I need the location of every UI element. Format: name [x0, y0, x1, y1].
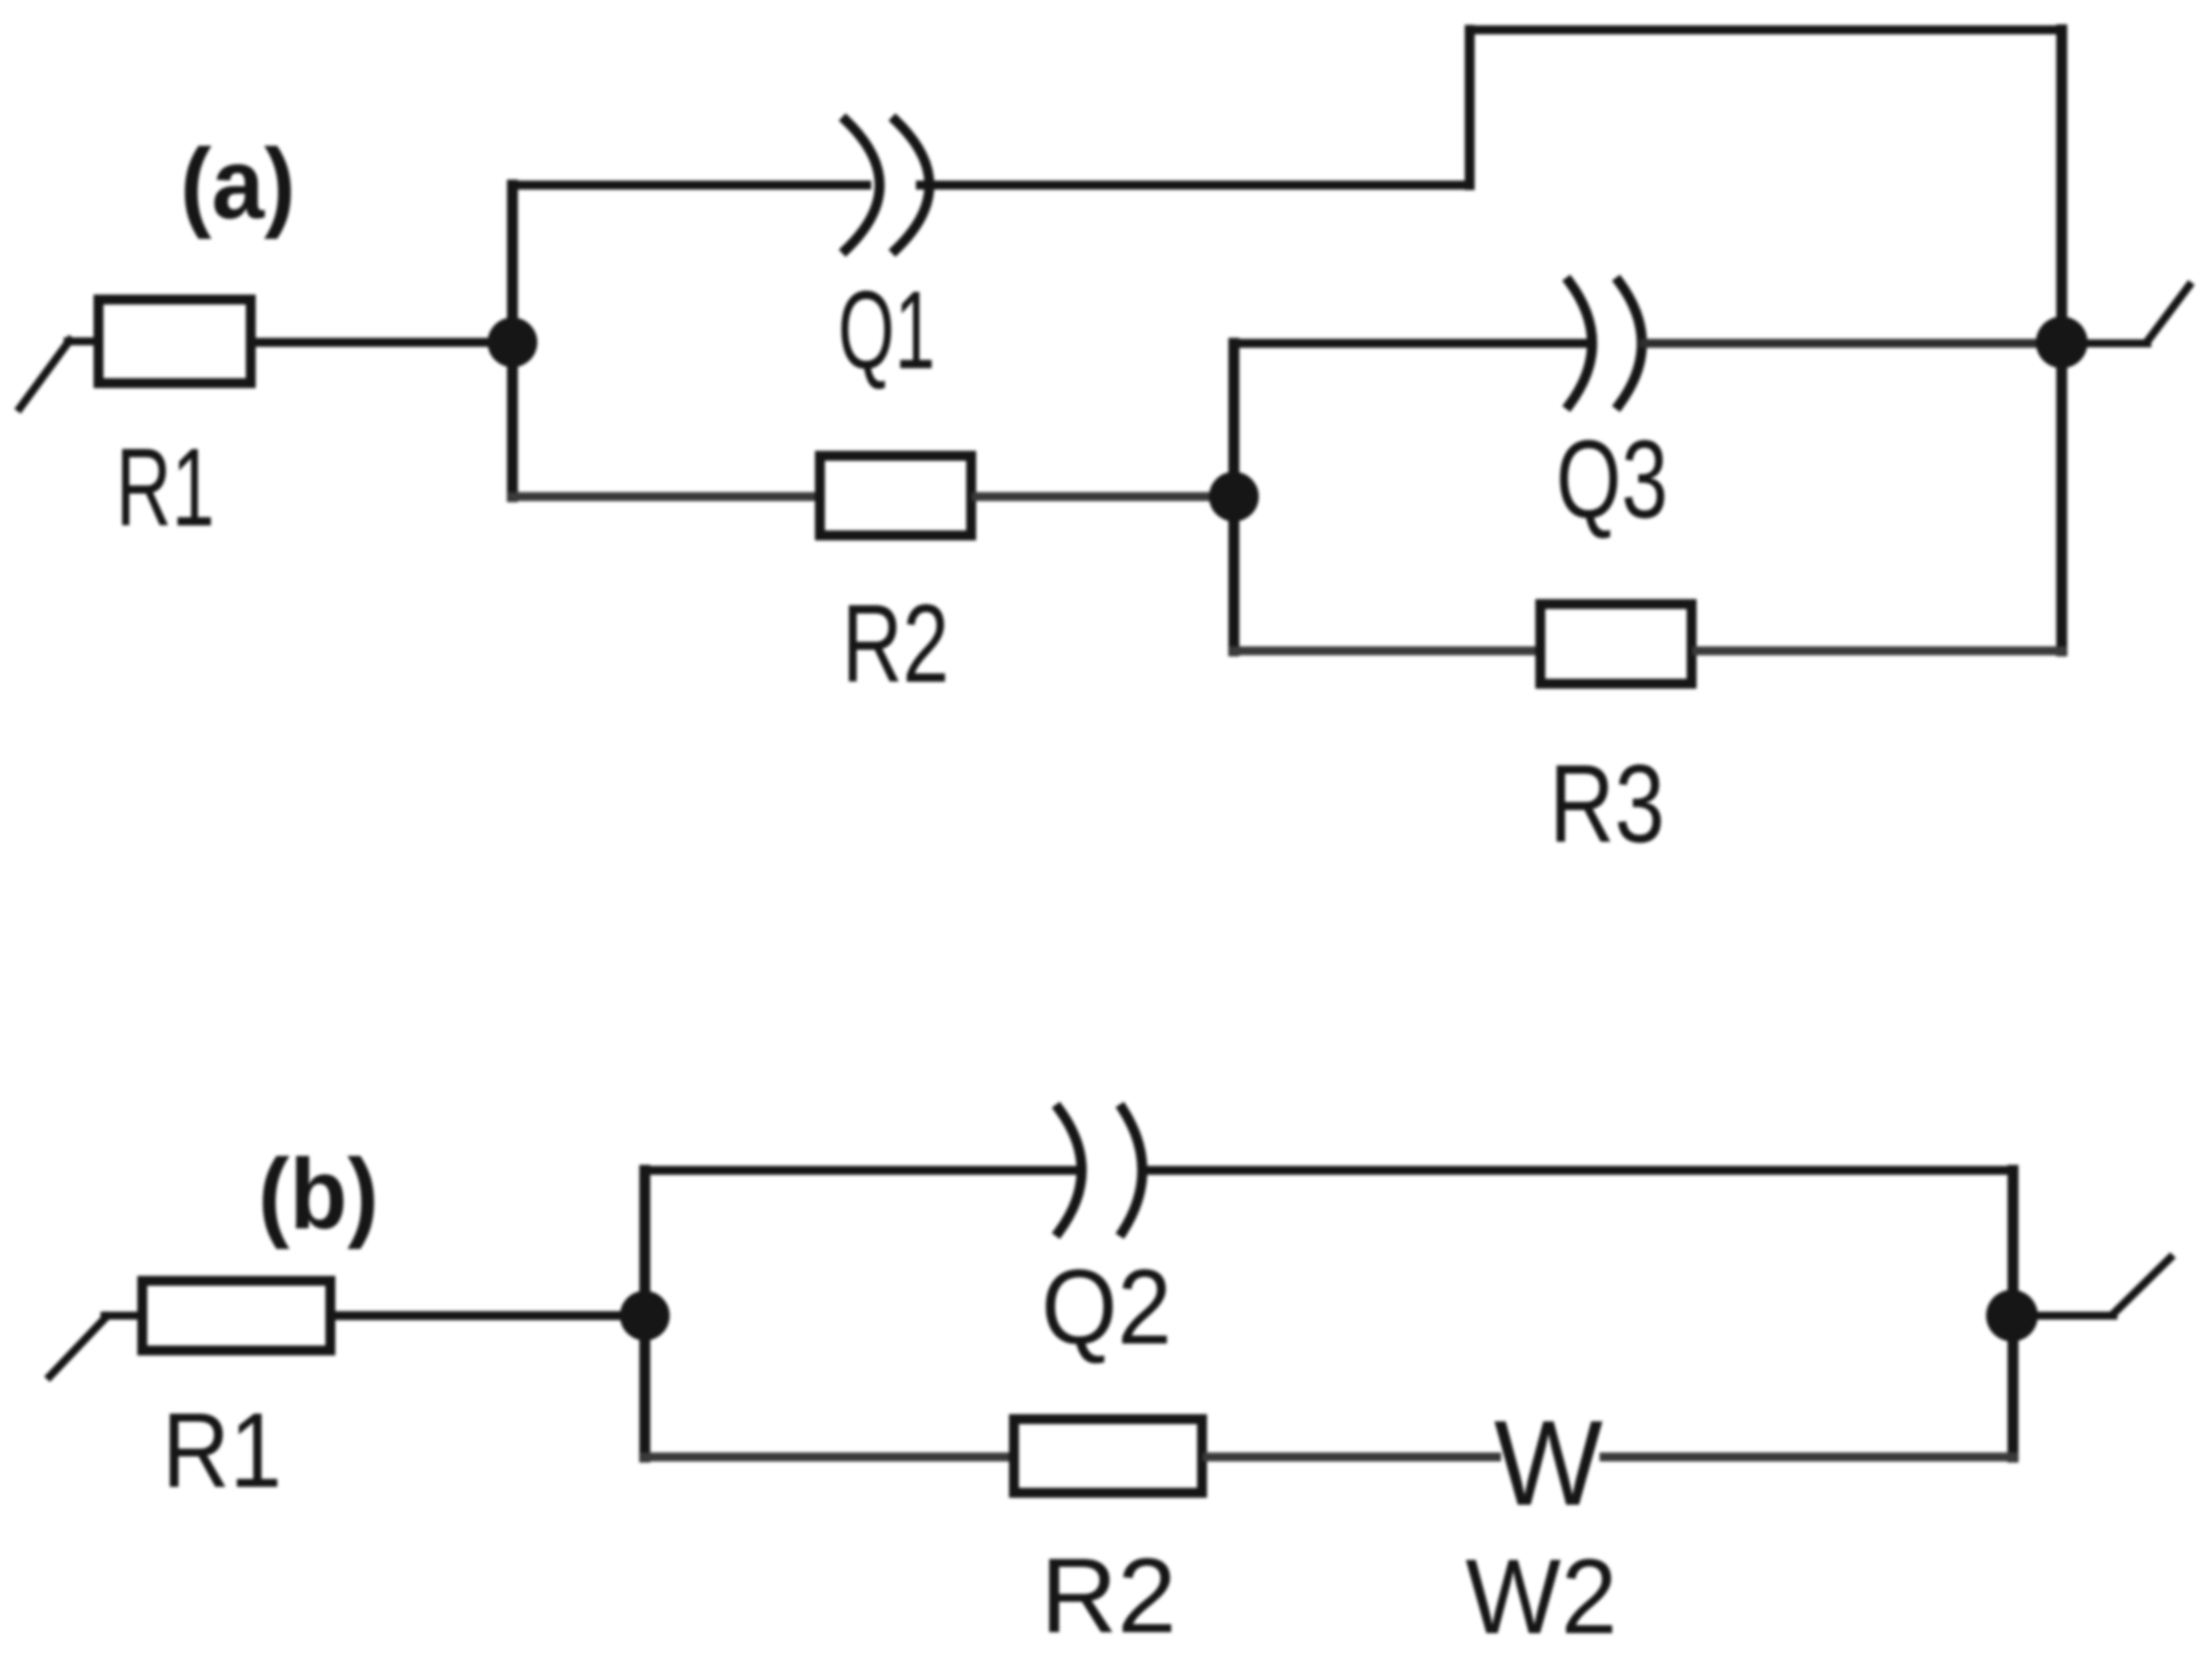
svg-text:Q2: Q2: [1041, 1247, 1171, 1366]
svg-text:(a): (a): [180, 128, 296, 240]
svg-text:R1: R1: [115, 426, 214, 549]
svg-text:Q3: Q3: [1556, 418, 1669, 541]
svg-text:Q1: Q1: [838, 269, 935, 392]
svg-text:R2: R2: [842, 582, 949, 706]
svg-text:W2: W2: [1466, 1539, 1617, 1657]
svg-text:R3: R3: [1549, 741, 1665, 866]
svg-text:R2: R2: [1041, 1536, 1177, 1655]
svg-text:(b): (b): [258, 1139, 378, 1250]
svg-text:R1: R1: [162, 1391, 282, 1510]
svg-text:W: W: [1494, 1395, 1602, 1531]
